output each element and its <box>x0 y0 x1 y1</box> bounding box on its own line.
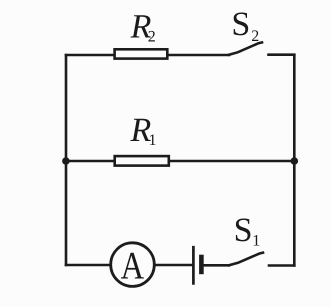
label S1 <box>234 212 261 250</box>
label R1 <box>130 112 157 149</box>
wire battery-to-switch segment <box>204 264 229 267</box>
wire top-left segment <box>66 54 114 57</box>
svg-text:1: 1 <box>149 132 157 149</box>
label S2 <box>231 6 259 45</box>
svg-text:S: S <box>231 6 250 43</box>
wire middle segment left <box>66 160 114 163</box>
label R2 <box>130 9 156 46</box>
svg-text:2: 2 <box>148 29 156 46</box>
resistor R1 <box>115 156 169 166</box>
resistor R2 <box>115 49 168 58</box>
wire middle segment right <box>169 160 294 163</box>
switch S1 blade <box>229 253 263 266</box>
battery negative plate <box>199 257 204 272</box>
wire ammeter-to-battery segment <box>155 264 193 267</box>
ammeter A1 <box>111 243 155 287</box>
wire top-middle segment <box>168 54 230 57</box>
wire left vertical <box>65 55 68 265</box>
node right junction <box>291 157 299 165</box>
wire bottom-left segment <box>66 264 111 267</box>
battery positive plate <box>192 247 195 283</box>
node left junction <box>62 157 70 165</box>
switch S2 blade <box>229 42 262 54</box>
svg-text:A: A <box>121 244 145 287</box>
svg-text:1: 1 <box>252 232 260 249</box>
wire right vertical <box>293 55 296 266</box>
wire bottom-right contact segment <box>269 264 294 267</box>
svg-text:S: S <box>234 212 253 249</box>
wire top-right contact segment <box>269 53 295 56</box>
svg-text:2: 2 <box>251 28 259 45</box>
